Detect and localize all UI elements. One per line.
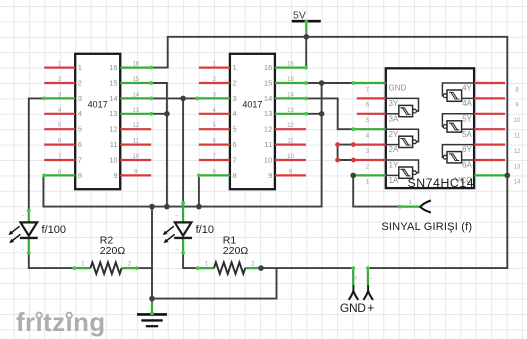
svg-text:14: 14 xyxy=(109,94,117,103)
svg-text:10: 10 xyxy=(514,118,521,124)
svg-text:14: 14 xyxy=(132,92,139,98)
svg-text:11: 11 xyxy=(514,134,521,140)
svg-text:14: 14 xyxy=(514,180,521,186)
svg-text:4Y: 4Y xyxy=(462,84,472,93)
svg-text:13: 13 xyxy=(287,108,294,114)
svg-text:6Y: 6Y xyxy=(462,145,472,154)
svg-text:3: 3 xyxy=(78,94,82,103)
svg-text:15: 15 xyxy=(264,78,272,87)
svg-text:16: 16 xyxy=(264,63,272,72)
svg-text:8: 8 xyxy=(233,171,237,180)
svg-text:10: 10 xyxy=(287,154,294,160)
svg-text:–: – xyxy=(176,213,179,219)
svg-text:7: 7 xyxy=(233,155,237,164)
svg-text:220Ω: 220Ω xyxy=(100,245,126,257)
svg-text:10: 10 xyxy=(264,155,272,164)
svg-text:13: 13 xyxy=(109,109,117,118)
svg-text:5: 5 xyxy=(233,125,237,134)
svg-text:16: 16 xyxy=(132,62,139,68)
svg-text:6: 6 xyxy=(233,140,237,149)
svg-text:5Y: 5Y xyxy=(462,114,472,123)
svg-text:3Y: 3Y xyxy=(389,99,399,108)
svg-text:12: 12 xyxy=(132,123,139,129)
svg-text:13: 13 xyxy=(264,109,272,118)
svg-text:15: 15 xyxy=(109,78,117,87)
svg-text:11: 11 xyxy=(287,139,294,145)
svg-text:220Ω: 220Ω xyxy=(223,245,249,257)
svg-text:9: 9 xyxy=(268,171,272,180)
svg-text:15: 15 xyxy=(132,77,139,83)
svg-text:12: 12 xyxy=(264,125,272,134)
svg-text:4017: 4017 xyxy=(242,100,262,110)
svg-text:12: 12 xyxy=(287,123,294,129)
svg-text:2: 2 xyxy=(78,78,82,87)
svg-text:5: 5 xyxy=(78,125,82,134)
svg-text:1A: 1A xyxy=(389,176,399,185)
svg-text:14: 14 xyxy=(264,94,272,103)
svg-text:4017: 4017 xyxy=(88,100,108,110)
svg-text:SINYAL GIRIŞI (f): SINYAL GIRIŞI (f) xyxy=(381,221,472,233)
svg-text:GND: GND xyxy=(340,301,366,315)
svg-text:14: 14 xyxy=(287,92,294,98)
svg-text:4: 4 xyxy=(78,109,82,118)
svg-text:SN74HC14: SN74HC14 xyxy=(407,176,474,190)
svg-text:8: 8 xyxy=(78,171,82,180)
svg-text:5A: 5A xyxy=(462,130,472,139)
svg-text:13: 13 xyxy=(514,164,521,170)
svg-text:16: 16 xyxy=(287,62,294,68)
svg-text:GND: GND xyxy=(389,84,407,93)
svg-text:f/100: f/100 xyxy=(42,224,66,236)
svg-text:11: 11 xyxy=(133,139,140,145)
svg-text:3A: 3A xyxy=(389,114,399,123)
svg-text:3: 3 xyxy=(233,94,237,103)
svg-text:11: 11 xyxy=(264,140,272,149)
svg-text:N: N xyxy=(353,276,358,279)
svg-text:f/10: f/10 xyxy=(196,224,214,236)
svg-text:+: + xyxy=(367,301,374,315)
svg-text:6A: 6A xyxy=(462,161,472,170)
svg-text:12: 12 xyxy=(109,125,117,134)
svg-text:5V: 5V xyxy=(293,9,306,21)
svg-text:16: 16 xyxy=(109,63,117,72)
svg-text:15: 15 xyxy=(287,77,294,83)
svg-text:fritzing: fritzing xyxy=(16,309,106,337)
svg-text:12: 12 xyxy=(514,149,521,155)
svg-text:4: 4 xyxy=(233,109,237,118)
svg-text:6: 6 xyxy=(78,140,82,149)
svg-text:7: 7 xyxy=(78,155,82,164)
svg-text:1Y: 1Y xyxy=(389,161,399,170)
svg-text:9: 9 xyxy=(113,171,117,180)
svg-text:11: 11 xyxy=(110,140,118,149)
svg-text:10: 10 xyxy=(109,155,117,164)
svg-text:–: – xyxy=(21,246,24,252)
svg-text:1: 1 xyxy=(78,63,82,72)
svg-text:4A: 4A xyxy=(462,99,472,108)
svg-text:–: – xyxy=(176,246,179,252)
svg-text:2: 2 xyxy=(233,78,237,87)
svg-text:13: 13 xyxy=(132,108,139,114)
svg-text:–: – xyxy=(21,213,24,219)
svg-text:2Y: 2Y xyxy=(389,130,399,139)
svg-text:10: 10 xyxy=(132,154,139,160)
svg-text:2A: 2A xyxy=(389,145,399,154)
svg-text:1: 1 xyxy=(233,63,237,72)
